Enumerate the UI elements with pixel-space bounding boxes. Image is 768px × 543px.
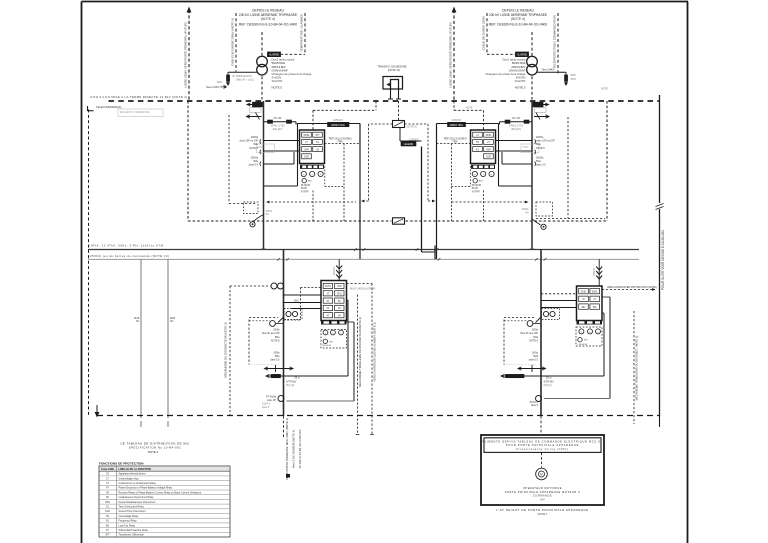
svg-text:Time Overcurrent Relay: Time Overcurrent Relay (119, 506, 145, 509)
svg-text:50Hz: 50Hz (571, 74, 578, 77)
svg-text:NO: NO (266, 214, 270, 216)
svg-text:59N: 59N (486, 148, 491, 151)
instrument transformer tap line with fuses (500, 117, 533, 131)
svg-text:SPD: SPD (217, 81, 222, 84)
svg-text:81R: 81R (486, 156, 491, 159)
wire: metering box stems to bus (388, 89, 401, 99)
svg-text:DFQ: DFQ (337, 294, 342, 296)
svg-text:LEGEND: LEGEND (404, 144, 414, 146)
dashed monitoring riser right of feeder 4 (634, 311, 639, 424)
svg-text:Apparatus thermal device: Apparatus thermal device (119, 473, 147, 476)
svg-text:25VA: 25VA (523, 146, 529, 149)
wires: feeder 2 taps to relay module R2 (496, 141, 533, 165)
protection relay module R1 (300, 130, 325, 164)
svg-text:Frequency Relay: Frequency Relay (119, 520, 138, 523)
svg-text:ALARME: ALARME (517, 54, 527, 57)
svg-text:50/5a: 50/5a (532, 352, 539, 355)
motor M door operator (536, 468, 548, 480)
label: lockout function tags (472, 185, 482, 194)
svg-text:TEMPERATURE / ALARMES: TEMPERATURE / ALARMES (300, 14, 304, 52)
svg-text:New 3-#4/0: New 3-#4/0 (542, 69, 555, 72)
node: alarm contact box (left branch) (268, 52, 281, 57)
transformer T2 (two winding) (527, 56, 538, 75)
aux circle left of feeder 4 (527, 321, 541, 327)
disconnect switch on feeder 3 (278, 317, 284, 323)
svg-text:(Max 3F + 1x10): (Max 3F + 1x10) (236, 79, 254, 82)
CT test circles under relay module (301, 171, 323, 176)
svg-text:50/5a: 50/5a (274, 352, 281, 355)
svg-text:ALARME: ALARME (269, 54, 279, 57)
svg-text:SPD: SPD (571, 78, 576, 81)
wires: R3 return conductors to breaker (280, 300, 355, 401)
svg-text:50/5a: 50/5a (532, 329, 539, 332)
wire: dashed control riser (right branch inner) (482, 13, 487, 53)
label: switchboard description bottom left (120, 442, 189, 455)
svg-text:5Ma: 5Ma (253, 160, 258, 163)
svg-text:POUR PORTE PRINCIPALE APPARENC: POUR PORTE PRINCIPALE APPARENCE (506, 443, 579, 447)
lockout relay 86 box on enclosure bottom edge (393, 218, 405, 224)
relay module terminal strip (471, 165, 495, 169)
labels: CT ratings on feeder 2 (536, 136, 555, 167)
svg-text:125VA: 125VA (266, 210, 273, 213)
svg-text:5Ma: 5Ma (536, 160, 541, 163)
svg-text:OC VR: OC VR (512, 117, 520, 120)
svg-text:MECANISME DU DISJONCTEUR (NOTE: MECANISME DU DISJONCTEUR (NOTE 3) (224, 322, 228, 377)
wires: dashed trip paths from 86 to both cubicles (361, 124, 436, 202)
svg-text:3-PH 3 FILS MISE A LA TERRE DI: 3-PH 3 FILS MISE A LA TERRE DIRECTE 13.8… (90, 95, 188, 99)
svg-text:CABLE DE GARDE 230kV: CABLE DE GARDE 230kV (482, 16, 486, 50)
svg-text:N TRIP: N TRIP (472, 192, 480, 194)
label: 125VDC supply tag for B1 (328, 118, 350, 127)
svg-text:SPECIFICATION No 10-B4-001: SPECIFICATION No 10-B4-001 (129, 446, 181, 450)
labels: CT ratings feeder 3 (262, 329, 280, 362)
svg-text:125VDC: 125VDC (452, 118, 462, 122)
dashed trip sense line from feeder 1 (266, 201, 356, 204)
svg-text:125VDC: 125VDC (593, 267, 596, 276)
wire: HV dashed drop into transformer T1 (261, 32, 263, 58)
transformer T1 (two winding) (257, 56, 268, 75)
svg-text:86T: 86T (584, 340, 588, 342)
labels: CT ratings on feeder 1 (239, 136, 258, 167)
svg-text:MECANISME TRINGLERIE DU DISJON: MECANISME TRINGLERIE DU DISJONCT. (NOTE … (635, 336, 639, 401)
svg-text:Differential Protective Relay: Differential Protective Relay (119, 529, 149, 532)
svg-text:87T: 87T (105, 534, 110, 537)
CT metering circles on feeder 3 (284, 309, 302, 320)
svg-text:PORTE PRINCIPALE APPARENCE MOT: PORTE PRINCIPALE APPARENCE MOTEUR A (505, 490, 581, 494)
svg-text:NOTE 8: NOTE 8 (536, 147, 545, 150)
svg-text:Code ANSI: Code ANSI (101, 468, 114, 471)
svg-text:5A: 5A (326, 307, 329, 310)
main HV dashed bus (109, 100, 660, 102)
svg-text:class 0.5: class 0.5 (536, 164, 546, 167)
drawing border frame (82, 2, 689, 543)
svg-text:NO: NO (525, 213, 529, 215)
svg-text:(E5) (E7): (E5) (E7) (273, 128, 283, 131)
svg-text:LIGNE 230kV VERS POSTE PRINCIP: LIGNE 230kV VERS POSTE PRINCIPAL (FUTUR) (449, 22, 453, 87)
auxiliary relay circle 86T (302, 179, 312, 183)
svg-text:87T: 87T (315, 134, 320, 137)
svg-text:50/51: 50/51 (486, 134, 493, 137)
svg-text:50/51: 50/51 (592, 291, 598, 293)
svg-text:class 0.5: class 0.5 (529, 359, 539, 362)
dashed cell boundary left of feeder 1 (229, 115, 256, 204)
MCB tie links (left pair) (134, 259, 175, 427)
wire: dashed drop from R2 aux to enclosure bottom (483, 191, 485, 222)
dashed cell boundary feeder 4 (504, 317, 536, 364)
125VDC chevron feed into relay module R4 (593, 259, 602, 286)
svg-text:class 10P ea 10P: class 10P ea 10P (536, 140, 555, 143)
wire: feeder 3 dashed continuation below limit (283, 416, 285, 437)
svg-text:(NOTE 4): (NOTE 4) (511, 17, 525, 21)
svg-text:Reverse-Phase or Phase-Balance: Reverse-Phase or Phase-Balance Current R… (119, 491, 202, 494)
protection functions table (99, 461, 230, 537)
svg-text:class 10P ea 10P: class 10P ea 10P (239, 140, 258, 143)
svg-text:DEPUIS LE RESEAU: DEPUIS LE RESEAU (502, 8, 534, 12)
aux circle left of feeder 3 (270, 321, 284, 327)
svg-text:New 3F aux 10P: New 3F aux 10P (520, 332, 538, 335)
ground test circle on feeder 2 cell bottom (532, 219, 546, 229)
svg-text:5Ma: 5Ma (275, 336, 280, 339)
125VDC chevron feed into relay module R3 (333, 259, 342, 280)
label: lockout function tags (301, 185, 311, 194)
svg-text:52 m: 52 m (546, 376, 551, 379)
instrument transformer tap line with fuses (264, 117, 297, 131)
wires: feeder 4 taps to relay module R4 (541, 301, 577, 308)
wire: T1 secondary dashed drop to main bus (261, 76, 263, 99)
svg-text:(52) (S): (52) (S) (544, 384, 552, 387)
main feeder 1 vertical conductor (263, 101, 265, 250)
bushing stack on feeder 2 below bus (533, 102, 549, 119)
svg-text:(E5) (E7): (E5) (E7) (511, 128, 521, 131)
label: feeder 3 gray note near PT (262, 403, 271, 409)
breaker trip-circuit cubicle box B2 (437, 124, 533, 260)
label + dashed trip wiring inside B1 (325, 137, 361, 221)
wire: HV dashed drop into transformer T2 (531, 32, 533, 58)
dashed interlock line through R4 top (541, 286, 657, 294)
CT arcs on feeder 2 (534, 139, 537, 166)
wires: feeder 3 taps to relay module R3 (283, 295, 322, 309)
labels: CT ratings feeder 4 (520, 329, 538, 362)
wire: dashed drop into door motor (541, 453, 543, 468)
svg-text:86 86: 86 86 (301, 188, 307, 190)
surge arrester SPD branch (left of T1) (206, 72, 257, 89)
dashed cell boundary right of feeder 2 (536, 117, 605, 219)
DC control bus (thin) (88, 258, 639, 260)
svg-text:M: M (540, 473, 543, 477)
wire: 230kV line A dashed riser with arrow (left branch) (184, 7, 192, 102)
svg-text:Note 5: Note 5 (262, 406, 270, 409)
svg-text:50/51: 50/51 (325, 286, 331, 288)
svg-text:5Ma: 5Ma (533, 355, 538, 358)
wire: DC dashed feed from bus into R1 (313, 101, 376, 130)
dashed trip connector at R2 left edge (452, 166, 471, 187)
svg-text:86 86 86: 86 86 86 (579, 344, 588, 346)
svg-text:200/5a: 200/5a (536, 157, 544, 160)
note box: CT rating (faint, feeder 1) (257, 144, 275, 153)
svg-text:NOTE 8: NOTE 8 (249, 147, 258, 150)
svg-text:200/5a: 200/5a (536, 136, 544, 139)
main feeder 2 vertical conductor (531, 101, 533, 250)
svg-text:FONCTIONS DE PROTECTION: FONCTIONS DE PROTECTION (99, 461, 144, 465)
svg-text:D'electrovanne wiring (115V): D'electrovanne wiring (115V) (516, 447, 568, 451)
incoming line title text block, transformer T2 branch (489, 8, 548, 26)
label: bus note (left end) (90, 95, 188, 99)
svg-text:125VDC jeu de barres de comman: 125VDC jeu de barres de commande (NOTE 1… (88, 254, 169, 258)
protection relay module R4 (577, 286, 603, 325)
svg-text:VERS POSTE PRINCIPAL MCC 600V: VERS POSTE PRINCIPAL MCC 600V (NOTE 3) (285, 418, 289, 480)
svg-text:N TRIP: N TRIP (301, 192, 309, 194)
svg-text:OC VR: OC VR (274, 117, 282, 120)
svg-text:125VDC: 125VDC (333, 118, 343, 122)
svg-text:50/5a: 50/5a (274, 329, 281, 332)
svg-text:86 86 86: 86 86 86 (301, 185, 311, 187)
node: alarm contact box (right branch) (516, 52, 529, 57)
svg-text:(NOTE 4): (NOTE 4) (261, 17, 275, 21)
svg-text:REF: DESSIN No E-10-B4-04-J01-: REF: DESSIN No E-10-B4-04-J01-0400 (489, 23, 548, 27)
PT node circle on feeder 3 (266, 396, 284, 402)
svg-text:ARRET URG.: ARRET URG. (449, 124, 463, 127)
svg-text:±2x2.5%: ±2x2.5% (272, 79, 283, 83)
wire: dashed drop bus to lockout relay 86 (398, 101, 400, 121)
note box: remote trip note (faint) (88, 105, 164, 117)
incoming line title text block, transformer T1 branch (239, 8, 298, 26)
wire: DC dashed feed from bus into R2 (454, 101, 484, 130)
wire: dashed drop from R1 aux to enclosure bottom (312, 191, 314, 222)
svg-text:class 0.5: class 0.5 (249, 164, 259, 167)
wire: T2 secondary dashed drop to main bus (531, 76, 533, 99)
label: transformer T2 nameplate data (486, 58, 526, 90)
wire: stub from instrument line down to relay module R2 (499, 122, 501, 125)
dashed enclosure: 13.8kV switchgear room (188, 101, 607, 221)
svg-text:52 m: 52 m (295, 376, 300, 379)
svg-text:class 0.5: class 0.5 (270, 359, 280, 362)
svg-text:New 3-1/C-500MCM (NOTE 3): New 3-1/C-500MCM (NOTE 3) (292, 430, 296, 468)
svg-text:Ground Time Overcurrent: Ground Time Overcurrent (119, 510, 146, 513)
svg-text:LIBELLE DE LA FONCTION: LIBELLE DE LA FONCTION (119, 468, 151, 471)
svg-text:86 86 86: 86 86 86 (323, 345, 332, 347)
dashed aux pocket under R4 with CT circles (576, 327, 602, 346)
tag plate on feeder 1 (250, 108, 262, 113)
wire: left boundary dashed line (88, 110, 90, 416)
wire: dashed mech link to feeder 3 (230, 285, 271, 287)
svg-text:5HP: 5HP (540, 497, 545, 501)
svg-text:3F 750MCM-W4/0: 3F 750MCM-W4/0 (232, 75, 252, 78)
wire: dashed riser C with signal text (left branch) (300, 13, 305, 54)
svg-text:New 3-#4/0: New 3-#4/0 (206, 85, 220, 89)
dashed trip connector at R1 right edge (325, 166, 344, 187)
label: 125VDC supply tag for B2 (448, 118, 466, 127)
svg-text:81R: 81R (304, 156, 309, 159)
svg-text:86 86 86: 86 86 86 (472, 185, 482, 187)
circuit breaker 52/4 drawout symbol (501, 365, 554, 387)
svg-text:5Ma: 5Ma (275, 355, 280, 358)
protection relay module R2 (471, 130, 496, 164)
dashed aux box 125VA on feeder 2 (522, 202, 553, 216)
MV main bus (solid) (88, 249, 639, 251)
svg-text:New 3F aux 10P: New 3F aux 10P (262, 332, 280, 335)
label: transformer T1 nameplate data (272, 58, 312, 90)
bus tie bar near centre DC column (434, 246, 436, 260)
svg-text:L'AT HEIGHT DE PORTE PRINCIPAL: L'AT HEIGHT DE PORTE PRINCIPALE APPARENC… (496, 508, 588, 512)
dashed sub-box left of R3 (284, 288, 322, 321)
label: door motor description (505, 486, 581, 501)
svg-text:Ground Instantaneous Overcurre: Ground Instantaneous Overcurrent (119, 501, 156, 504)
wire: dashed outer riser (right branch) (553, 13, 558, 74)
svg-text:59N: 59N (304, 148, 309, 151)
svg-text:5Ma: 5Ma (536, 143, 541, 146)
ground test circle on feeder 1 cell bottom (250, 215, 264, 227)
auxiliary relay circle 86T (473, 179, 483, 183)
bushing stack on feeder 1 below bus (247, 102, 263, 119)
svg-text:NOTE: NOTE (466, 108, 473, 110)
svg-text:25VA: 25VA (258, 146, 264, 149)
svg-text:NC: NC (136, 321, 140, 323)
svg-text:Phase-Sequence or Phase-Balanc: Phase-Sequence or Phase-Balance Voltage … (119, 487, 173, 490)
svg-text:class 3P: class 3P (267, 399, 276, 402)
svg-text:Instantaneous Overcurrent Rela: Instantaneous Overcurrent Relay (119, 496, 155, 499)
wire: dashed mechanism riser with note (feeder 3) (224, 286, 231, 416)
dashed trip sense line to feeder 2 (452, 201, 529, 204)
protection relay module R3 (321, 281, 347, 325)
CT metering circles on feeder 4 (542, 309, 560, 320)
svg-text:200/5a: 200/5a (251, 136, 259, 139)
surge arrester SPD branch (right of T2) (537, 69, 577, 86)
svg-text:(52) (S): (52) (S) (286, 384, 294, 387)
relay module terminal strip (300, 165, 324, 169)
svg-text:MCB: MCB (170, 318, 176, 320)
svg-text:LR: LR (338, 315, 341, 317)
wires: R4 return conductors to breaker (524, 297, 610, 399)
wire: right riser stub below dashed limit (659, 416, 661, 427)
svg-text:NOTE: NOTE (601, 88, 608, 91)
svg-text:NOTE 8: NOTE 8 (529, 340, 538, 343)
svg-text:50/51: 50/51 (304, 134, 311, 137)
svg-text:TELEPROTECTION / COMMUNICATION: TELEPROTECTION / COMMUNICATION (553, 15, 557, 68)
wire: dashed control riser B (left branch) (231, 13, 236, 72)
lockout relay 86 (centre) (393, 121, 417, 129)
svg-text:125VDC: 125VDC (333, 266, 336, 275)
wire: feeder 4 dashed continuation into door box (540, 416, 542, 435)
svg-text:Transformer Differential: Transformer Differential (119, 534, 144, 537)
circuit breaker 52/3 drawout symbol (265, 365, 300, 387)
dashed aux box 125VA on feeder 1 (244, 202, 273, 216)
svg-text:Undervoltage relay: Undervoltage relay (119, 477, 140, 480)
svg-text:50/51: 50/51 (581, 291, 587, 293)
wire: 230kV line dashed riser with arrow (right branch) (449, 7, 457, 102)
svg-text:MCB: MCB (134, 318, 140, 320)
svg-text:51G: 51G (105, 510, 110, 513)
svg-text:OPERATEUR MOTORISE: OPERATEUR MOTORISE (523, 486, 562, 490)
svg-text:NOTE 8: NOTE 8 (271, 340, 280, 343)
disconnect switch on feeder 4 (536, 317, 542, 323)
wire: dashed link alarm box to riser C (281, 53, 306, 55)
labels: rotated circuit tags below feeder 3 (285, 418, 302, 480)
svg-text:NOTE 5: NOTE 5 (515, 86, 526, 90)
wires: feeder 1 taps to relay module R1 (264, 141, 300, 165)
CT test circles under relay module (472, 171, 494, 176)
breaker trip-circuit cubicle box B1 (264, 124, 361, 260)
svg-text:ARRET URG.: ARRET URG. (331, 124, 345, 127)
svg-text:86T: 86T (308, 181, 312, 183)
svg-text:Undercurrent or Underpower Rel: Undercurrent or Underpower Relay (119, 482, 157, 485)
svg-text:50/5: 50/5 (294, 301, 299, 303)
svg-text:NOTE 5: NOTE 5 (272, 86, 283, 90)
svg-text:Note 5: Note 5 (531, 404, 539, 407)
wire: R3 right edge link down (347, 321, 355, 323)
svg-text:±2x2.5%: ±2x2.5% (515, 79, 526, 83)
svg-text:CABLE DE GARDE 230kV (NOTE 6): CABLE DE GARDE 230kV (NOTE 6) (231, 18, 235, 66)
svg-text:3F REF:E-10-B4-J01-0400-002: 3F REF:E-10-B4-J01-0400-002 (298, 429, 302, 468)
outgoing feeder 3 vertical conductor (283, 250, 285, 417)
main door operator box (bottom right) (481, 435, 604, 505)
svg-text:Lock-Out Relay: Lock-Out Relay (119, 524, 136, 527)
svg-text:ALIMENTE DEPUIS TABLEAU DE COM: ALIMENTE DEPUIS TABLEAU DE COMMANDE ELEC… (482, 439, 602, 443)
svg-text:5 MVA, 12.47kV, 50Hz, 3-PH, 11: 5 MVA, 12.47kV, 50Hz, 3-PH, 11kA/1s SYM (88, 244, 164, 248)
PT node circle on feeder 4 (530, 396, 542, 408)
label + dashed trip wiring inside B2 (437, 137, 471, 221)
dashed aux pocket under R3 with CT circles (321, 330, 347, 349)
svg-text:50N: 50N (105, 501, 110, 504)
svg-text:DECLENCH. / FERMETURE: DECLENCH. / FERMETURE (120, 112, 150, 114)
svg-text:VERS CHARGEUR 125VDC ALIMENT.: VERS CHARGEUR 125VDC ALIMENT. (NOTE 3) (373, 322, 377, 381)
svg-text:NOTE 2: NOTE 2 (148, 450, 159, 454)
svg-text:DEPUIS LE RESEAU: DEPUIS LE RESEAU (252, 8, 284, 12)
svg-text:TELECOMMANDE(S): TELECOMMANDE(S) (96, 105, 121, 109)
svg-text:86T: 86T (479, 181, 483, 183)
svg-text:NO: NO (170, 321, 174, 323)
svg-text:5Ma: 5Ma (533, 336, 538, 339)
svg-text:POUR SUITE VOIR DESSIN E-10-B4: POUR SUITE VOIR DESSIN E-10-B4-001 (661, 230, 665, 290)
dashed monitoring risers right of feeder 3 (347, 284, 377, 435)
svg-text:COMMANDE: COMMANDE (533, 494, 552, 498)
wire: dashed link riser to alarm box (right) (487, 53, 516, 55)
svg-text:5Ma: 5Ma (253, 143, 258, 146)
wire: right outgoing riser to future dwg (656, 95, 664, 416)
metering unit box above bus (centre) (377, 64, 407, 89)
svg-text:REF: DESSIN No E-10-B4-04-J01-: REF: DESSIN No E-10-B4-04-J01-0400 (239, 23, 298, 27)
dashed cell boundary feeder 3 (249, 317, 279, 364)
svg-text:125VA: 125VA (522, 208, 529, 211)
svg-text:200/5a: 200/5a (251, 157, 259, 160)
node: breaker control circles top of feeder 3 (271, 283, 284, 289)
svg-text:TRH: TRH (337, 286, 342, 288)
CT arcs on feeder 1 (259, 139, 262, 166)
svg-text:NOTE 7: NOTE 7 (538, 512, 548, 516)
svg-text:86 86: 86 86 (472, 188, 478, 190)
label: 125VDC feed centre column (401, 138, 419, 147)
svg-text:TRIP: TRIP (452, 140, 458, 143)
svg-text:(NOTE 11): (NOTE 11) (388, 68, 400, 72)
label: under door box (496, 508, 588, 516)
note box: CT rating (faint, feeder 2) (521, 144, 539, 153)
svg-text:LIGNE 230kV VERS POSTE PRINCIP: LIGNE 230kV VERS POSTE PRINCIPAL (FUTUR) (184, 22, 188, 87)
outgoing feeder 4 vertical conductor (540, 250, 542, 417)
tag plate on feeder 2 (535, 108, 547, 113)
bottom dashed limit line with down arrow (95, 405, 660, 418)
svg-text:86T: 86T (329, 341, 333, 343)
svg-text:Overvoltage Relay: Overvoltage Relay (119, 515, 139, 518)
connection slashes on buses (277, 248, 546, 260)
svg-text:TRANSFO. DE MESURE: TRANSFO. DE MESURE (377, 64, 407, 68)
svg-text:TRIP: TRIP (337, 140, 343, 143)
wire: stub from instrument line down to relay module R1 (295, 122, 297, 125)
svg-text:(NOTE 9): (NOTE 9) (407, 126, 417, 129)
svg-text:MECANISME TRINGLERIE DU DISJON: MECANISME TRINGLERIE DU DISJONCTEUR (NOT… (358, 317, 362, 387)
wire: centre DC conductor down to bus tie (400, 128, 435, 252)
svg-text:VERS ASSOCIATED PROTECTION (NO: VERS ASSOCIATED PROTECTION (NOTE) (607, 286, 657, 289)
